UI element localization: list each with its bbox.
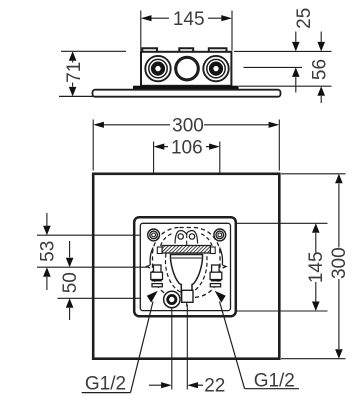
right side fitting — [210, 248, 226, 287]
screw hole left — [148, 229, 160, 241]
svg-text:145: 145 — [306, 251, 327, 283]
svg-text:300: 300 — [172, 116, 204, 137]
port middle — [176, 57, 199, 80]
dim 56 right — [317, 32, 325, 104]
dim 145 top: dimension line — [141, 15, 232, 21]
flange bar (block bottom) — [133, 86, 239, 89]
dashed horseshoe under goblet — [165, 254, 207, 294]
ref line A (screw hole axis) — [37, 234, 140, 236]
valve crown top — [175, 231, 198, 244]
dim 300 top: dimension line — [93, 122, 279, 128]
ref line C (bottom port axis) — [58, 297, 141, 299]
square top edge extended right — [281, 173, 346, 175]
left side fitting — [147, 248, 163, 287]
dim 71 left — [69, 51, 77, 96]
port right — [203, 56, 228, 81]
right ref line: ports centerline extended — [244, 66, 303, 68]
big square 300x300 — [93, 174, 279, 359]
svg-text:300: 300 — [329, 247, 350, 279]
dim 25 right — [292, 32, 300, 93]
dim 53 left — [43, 213, 51, 290]
dim 106: dimension line — [154, 144, 220, 150]
dim 50 left — [66, 241, 74, 320]
bottom fitting circle — [164, 291, 180, 307]
dim 145 right — [312, 223, 320, 311]
svg-text:145: 145 — [173, 9, 205, 30]
inner box top edge extended right — [237, 222, 328, 224]
valve body: upper dashed arcs — [159, 234, 172, 253]
dim 106: extension lines down to screw holes — [154, 142, 220, 231]
svg-text:71: 71 — [64, 62, 85, 83]
svg-text:50: 50 — [60, 272, 81, 293]
svg-text:G1/2: G1/2 — [85, 373, 126, 394]
screw hole right — [214, 229, 226, 241]
port left — [145, 56, 170, 81]
svg-text:22: 22 — [204, 375, 225, 396]
goblet rim line — [172, 257, 202, 259]
wall line left — [59, 95, 94, 97]
leader arrow left (to left fitting) — [147, 291, 158, 303]
ref line B (side port axis) — [37, 266, 147, 268]
extension line from bottom square — [186, 305, 188, 390]
bottom square outlet — [182, 290, 193, 302]
G1/2 label right — [220, 302, 300, 392]
inner box outer border — [134, 217, 236, 316]
square bottom edge extended right — [281, 358, 346, 360]
inner box bottom edge extended right — [237, 310, 328, 312]
svg-text:53: 53 — [38, 241, 59, 262]
inner box inner border — [140, 223, 230, 310]
right ref line: block top extended — [234, 50, 332, 52]
extension line from bottom circle — [171, 308, 173, 390]
valve body: center dashed line — [186, 233, 188, 308]
dim 22 — [149, 382, 203, 388]
block body (side view) — [141, 48, 231, 86]
right ref line: flange bottom extended — [239, 85, 332, 87]
dim 145 top: extension lines — [141, 11, 232, 51]
top tabs — [142, 48, 226, 52]
hatched crossbar — [157, 246, 215, 254]
base plate (side view) — [93, 90, 281, 97]
svg-text:106: 106 — [171, 137, 203, 158]
dim 300 right — [335, 174, 343, 359]
svg-text:56: 56 — [309, 59, 330, 80]
valve body: big dashed outline — [153, 228, 221, 298]
G1/2 label left — [82, 302, 153, 395]
dim 300 top: extension lines — [93, 120, 279, 171]
leader arrow right (to right fitting) — [215, 291, 226, 303]
left top reference line — [61, 50, 126, 52]
svg-text:25: 25 — [294, 8, 315, 29]
goblet — [170, 255, 202, 296]
